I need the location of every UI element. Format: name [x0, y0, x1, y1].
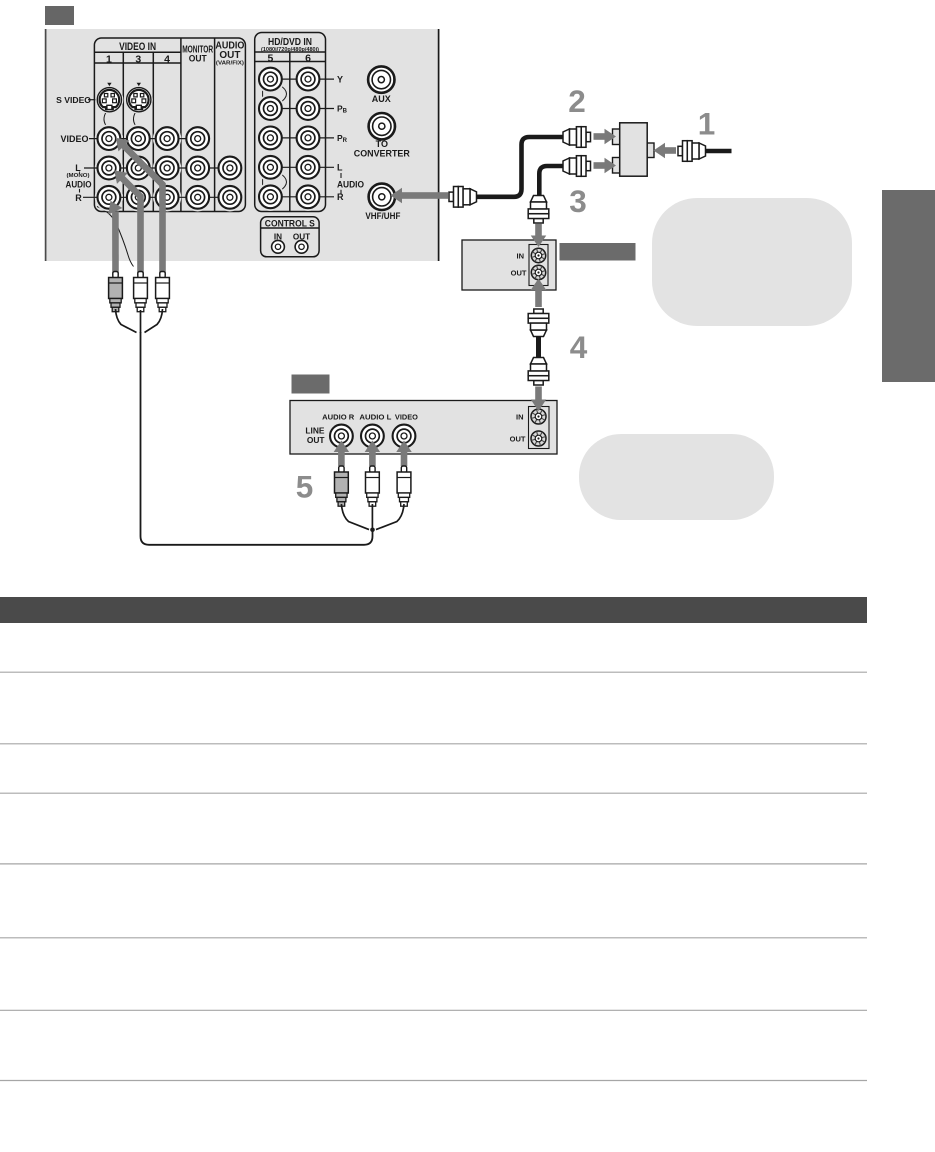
svg-text:2: 2 [568, 83, 586, 119]
arrow to AUDIO L 1 jack [109, 165, 128, 184]
RCA jack VIDEO 4 [156, 127, 179, 150]
RCA jack AUDIO L 1 [98, 157, 121, 180]
RCA jack Y 6 [297, 68, 320, 91]
RCA jack PB 6 [297, 97, 320, 120]
RCA plug video cable to TV [156, 272, 170, 312]
RCA jack VIDEO MONITOR OUT [186, 127, 209, 150]
RCA jack VCR LINE OUT audio L [361, 425, 384, 448]
wire from TV plug L [140, 310, 142, 333]
svg-text:OUT: OUT [189, 54, 207, 65]
RCA jack AUDIO R 1 [98, 186, 121, 209]
left link line Y-PB col5 [262, 84, 264, 104]
arrow into VHF/UHF jack [391, 188, 449, 204]
F-type jack VCR OUT [531, 431, 546, 446]
splitter left tab top [613, 129, 621, 145]
svg-text:(MONO): (MONO) [67, 173, 90, 179]
callout blob right of VCR [579, 434, 774, 520]
arrow marker above S-video 3 [137, 83, 141, 86]
curve near R jack [97, 207, 134, 267]
left link line L-R col5 [262, 172, 264, 192]
RCA jack AUDIO R OUT [219, 186, 242, 209]
VCR rear panel [290, 401, 557, 455]
coax F-connector 4 upper toward cable box [528, 309, 549, 337]
svg-text:VIDEO: VIDEO [60, 134, 88, 144]
VCR name label box [292, 375, 330, 394]
arrow up into video jack [396, 441, 412, 467]
svg-text:AUX: AUX [372, 94, 391, 104]
RCA jack L 6 [297, 156, 320, 179]
main A/V cable run [141, 332, 373, 545]
RCA jack PB 5 [259, 97, 282, 120]
CONTROL S box [261, 217, 320, 257]
F-type jack cable box OUT [531, 265, 545, 279]
chapter sidebar tab [882, 190, 935, 382]
svg-text:AUDIO R: AUDIO R [322, 413, 355, 422]
RCA jack Y 5 [259, 68, 282, 91]
arrow into splitter antenna port [654, 143, 677, 159]
RCA jack AUDIO R 4 [156, 186, 179, 209]
coax F-connector 3 from splitter [563, 156, 591, 177]
table header bar [0, 597, 867, 623]
wire junction [370, 528, 375, 533]
RCA jack VCR LINE OUT video [393, 425, 416, 448]
RCA jack AUDIO L MONITOR [186, 157, 209, 180]
coax cable 4 middle [536, 336, 541, 358]
arrow to AUDIO R 1 jack [103, 198, 122, 215]
RCA jack R 5 [259, 185, 282, 208]
coax F-connector 4 lower toward VCR [528, 358, 549, 386]
wire from TV plug R [116, 309, 137, 333]
crossover curve L-R col5 [279, 173, 287, 192]
TV rear panel background [45, 29, 439, 261]
coax F-connector 1 antenna cable [678, 141, 706, 162]
svg-text:4: 4 [570, 329, 588, 365]
page tab marker top-left [45, 6, 74, 25]
svg-text:IN: IN [517, 251, 525, 260]
splitter right tab [646, 143, 654, 158]
curve under S-video 3 [133, 112, 137, 128]
splitter left tab bottom [613, 158, 621, 174]
cable box name label box [560, 243, 636, 261]
svg-text:AUDIO: AUDIO [337, 180, 364, 190]
svg-text:VIDEO: VIDEO [395, 413, 418, 422]
svg-text:4: 4 [164, 53, 170, 65]
svg-text:5: 5 [267, 52, 273, 64]
svg-text:R: R [75, 193, 82, 203]
arrow marker above S-video 1 [107, 83, 111, 86]
wire from VCR plug L [371, 504, 373, 530]
svg-text:L: L [75, 163, 81, 173]
HD/DVD IN group box [255, 33, 326, 212]
svg-text:3: 3 [569, 183, 587, 219]
RCA jack AUDIO R 3 [127, 186, 150, 209]
coax F-connector A toward TV [449, 187, 477, 208]
wire from VCR plug R [341, 504, 369, 530]
RCA jack VIDEO 1 [98, 127, 121, 150]
arrow shaft to VIDEO 1 [123, 145, 162, 275]
arrow shaft to AUDIO R 1 [112, 211, 119, 275]
arrow into splitter top port [594, 129, 617, 145]
coax cable connector A to splitter lead 2 [477, 137, 564, 197]
svg-text:CONVERTER: CONVERTER [354, 148, 410, 158]
curve under S-video 1 [104, 112, 108, 128]
jack AUX [368, 66, 394, 92]
arrow shaft to AUDIO L 1 [122, 178, 141, 275]
arrow up into audio R jack [334, 441, 350, 467]
VCR jack sub-panel [529, 407, 550, 449]
S-video connector 3 [125, 86, 153, 114]
cable box jack sub-panel [529, 245, 548, 286]
arrow up into audio L jack [365, 441, 381, 467]
svg-text:CONTROL S: CONTROL S [265, 218, 315, 229]
RCA plug audio R cable to TV [109, 272, 123, 312]
arrow to VIDEO 1 jack [110, 132, 129, 151]
wire from TV plug video [145, 309, 163, 333]
table row divider 6 [0, 1009, 867, 1011]
table row divider 3 [0, 792, 867, 794]
RCA jack L 5 [259, 156, 282, 179]
table row divider 7 [0, 1080, 867, 1082]
TV panel left edge [45, 29, 47, 261]
cable box [462, 240, 556, 290]
splitter body [620, 123, 648, 176]
coax cable splitter lead 3 down [539, 166, 563, 196]
arrow up into cable box OUT jack [531, 279, 547, 308]
table row divider 2 [0, 743, 867, 745]
RCA jack PR 5 [259, 126, 282, 149]
RCA plug video cable to VCR [397, 466, 411, 506]
RCA jack AUDIO L 3 [127, 157, 150, 180]
svg-text:5: 5 [296, 469, 314, 505]
svg-text:L: L [337, 163, 343, 173]
svg-text:VIDEO IN: VIDEO IN [119, 41, 156, 53]
arrow into splitter bottom port [594, 158, 617, 174]
table row divider 1 [0, 671, 867, 673]
F-type jack VCR IN [531, 409, 546, 424]
arrow down into VCR IN jack [531, 387, 547, 412]
crossover curve Y-PB col5 [279, 85, 287, 104]
S-video connector 1 [95, 86, 123, 114]
svg-text:S VIDEO: S VIDEO [56, 95, 91, 105]
RCA plug audio L cable to TV [134, 272, 148, 312]
svg-text:VHF/UHF: VHF/UHF [365, 211, 400, 221]
RCA jack PR 6 [297, 126, 320, 149]
jack VHF/UHF [369, 184, 395, 210]
RCA jack VCR LINE OUT audio R [330, 425, 353, 448]
F-type jack cable box IN [531, 248, 545, 262]
callout blob right of cable box [652, 198, 852, 326]
RCA jack R 6 [297, 185, 320, 208]
RCA jack VIDEO 3 [127, 127, 150, 150]
svg-text:(VAR/FIX): (VAR/FIX) [216, 61, 244, 67]
svg-text:3: 3 [135, 53, 141, 65]
coax F-connector 2 into splitter [563, 127, 591, 148]
svg-text:1: 1 [698, 106, 716, 142]
svg-text:OUT: OUT [511, 268, 527, 277]
svg-text:OUT: OUT [219, 50, 240, 61]
table row divider 5 [0, 937, 867, 939]
svg-text:AUDIO L: AUDIO L [359, 413, 392, 422]
svg-text:OUT: OUT [510, 435, 526, 444]
svg-text:HD/DVD IN: HD/DVD IN [268, 36, 312, 48]
wire from VCR plug video [376, 504, 404, 530]
RCA jack AUDIO L 4 [156, 157, 179, 180]
RCA jack AUDIO R MONITOR [186, 186, 209, 209]
svg-text:AUDIO: AUDIO [66, 180, 92, 190]
coax F-connector down into cable box IN [528, 196, 549, 224]
row connector lines [83, 79, 334, 197]
jack TO CONVERTER [369, 113, 395, 139]
RCA plug audio R cable to VCR [335, 466, 349, 506]
svg-text:6: 6 [305, 52, 311, 64]
arrow down into cable box IN jack [531, 224, 547, 248]
antenna coax cable [706, 149, 732, 154]
svg-text:1: 1 [106, 53, 112, 65]
svg-text:OUT: OUT [307, 435, 326, 445]
CONTROL S OUT jack [295, 240, 308, 253]
RCA plug audio L cable to VCR [366, 466, 380, 506]
CONTROL S IN jack [272, 240, 285, 253]
table row divider 4 [0, 863, 867, 865]
svg-text:Y: Y [337, 74, 343, 84]
VIDEO IN group box [94, 38, 245, 212]
RCA jack AUDIO L OUT [219, 157, 242, 180]
svg-text:IN: IN [516, 413, 524, 422]
TV panel right edge [438, 29, 440, 261]
svg-text:LINE: LINE [305, 425, 324, 435]
